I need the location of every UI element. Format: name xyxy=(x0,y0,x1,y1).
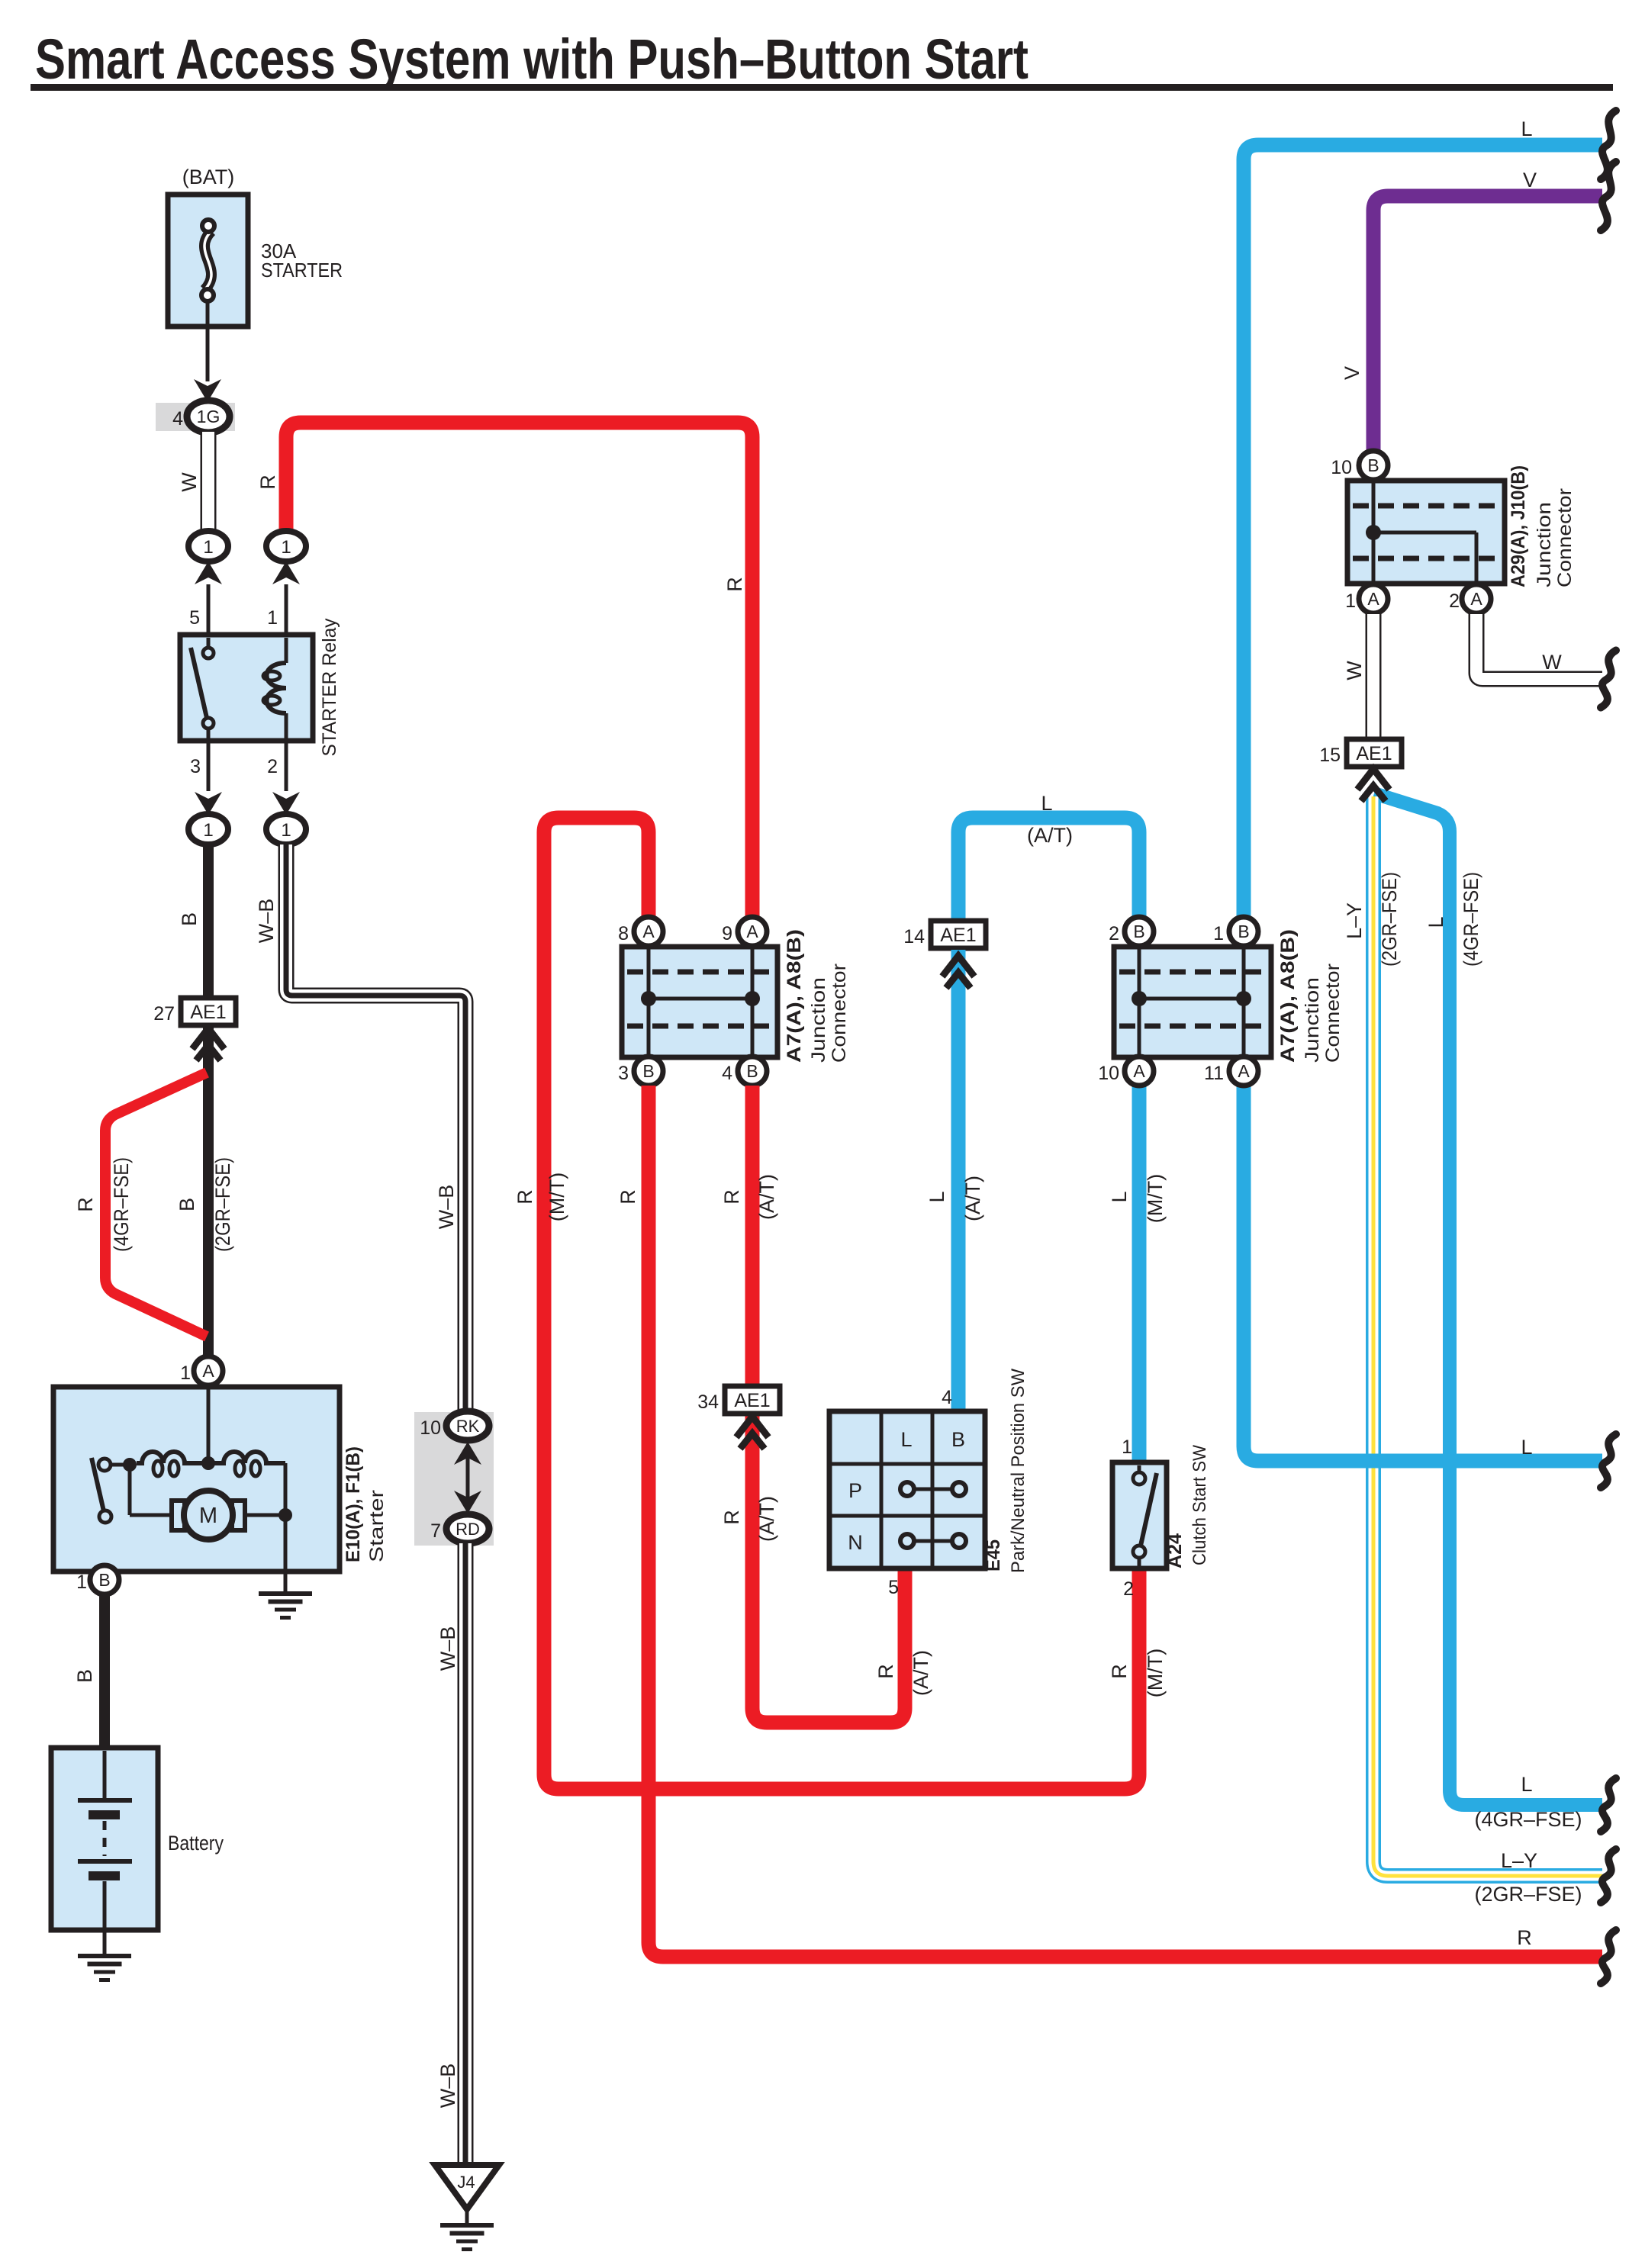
svg-text:AE1: AE1 xyxy=(734,1390,770,1411)
svg-text:R: R xyxy=(513,1189,536,1205)
wire relay pin2 down xyxy=(285,741,288,791)
svg-text:R: R xyxy=(74,1197,97,1212)
svg-text:1: 1 xyxy=(203,820,213,841)
svg-text:Clutch Start SW: Clutch Start SW xyxy=(1189,1445,1210,1565)
arrowhead up into oval (right) xyxy=(272,561,300,584)
svg-text:3: 3 xyxy=(190,756,201,777)
wire W-B from relay pin 2 xyxy=(286,844,465,1413)
svg-text:(M/T): (M/T) xyxy=(1144,1649,1167,1697)
svg-text:B: B xyxy=(1133,922,1144,941)
wire W-B to J4 xyxy=(458,1543,474,2163)
continuation squiggle L mid xyxy=(1601,1434,1616,1488)
svg-text:AE1: AE1 xyxy=(940,925,976,946)
svg-text:(2GR–FSE): (2GR–FSE) xyxy=(1378,872,1401,967)
battery ground wire xyxy=(103,1930,107,1956)
svg-text:4: 4 xyxy=(172,408,183,429)
pin 3B circle xyxy=(634,1057,663,1086)
chevron below AE1-34 xyxy=(736,1417,768,1437)
svg-text:(BAT): (BAT) xyxy=(182,166,235,188)
starter internals xyxy=(207,1385,211,1463)
svg-text:A29(A), J10(B): A29(A), J10(B) xyxy=(1508,465,1529,587)
svg-text:STARTER Relay: STARTER Relay xyxy=(319,618,340,756)
wire L (A/T) AE1-14 to pin 2B xyxy=(958,818,1139,921)
svg-text:E10(A), F1(B): E10(A), F1(B) xyxy=(343,1446,364,1562)
svg-text:8: 8 xyxy=(618,923,629,944)
svg-text:9: 9 xyxy=(722,923,732,944)
continuation squiggle L-Y xyxy=(1601,1849,1616,1903)
junction connector A7(A),A8(B) box (left) xyxy=(622,947,777,1057)
svg-text:Junction: Junction xyxy=(1534,502,1555,587)
svg-text:7: 7 xyxy=(430,1520,441,1542)
svg-text:(4GR–FSE): (4GR–FSE) xyxy=(1460,872,1482,967)
continuation squiggle W xyxy=(1601,651,1616,708)
svg-text:(4GR–FSE): (4GR–FSE) xyxy=(110,1157,133,1252)
svg-text:W–B: W–B xyxy=(436,2064,459,2109)
svg-text:(4GR–FSE): (4GR–FSE) xyxy=(1474,1808,1582,1831)
svg-text:34: 34 xyxy=(697,1391,719,1413)
ground (battery) xyxy=(78,1954,131,1958)
chevron below AE1-27 xyxy=(192,1028,224,1049)
svg-text:1: 1 xyxy=(1213,923,1224,944)
svg-text:27: 27 xyxy=(153,1003,175,1025)
svg-text:B: B xyxy=(1238,922,1249,941)
svg-text:1G: 1G xyxy=(197,407,221,426)
svg-text:R: R xyxy=(1108,1664,1131,1679)
arrowhead up to RK xyxy=(454,1442,481,1465)
connector 27 AE1 xyxy=(181,998,236,1025)
wire W pin 2A to right edge xyxy=(1476,614,1602,679)
svg-text:15: 15 xyxy=(1319,745,1341,766)
wire fuse to 1G xyxy=(206,302,210,381)
svg-text:(A/T): (A/T) xyxy=(755,1174,778,1220)
svg-text:Connector: Connector xyxy=(1554,488,1576,587)
svg-text:A: A xyxy=(1367,589,1379,609)
svg-text:(2GR–FSE): (2GR–FSE) xyxy=(211,1157,234,1252)
svg-text:W–B: W–B xyxy=(436,1626,459,1671)
relay STARTER Relay box xyxy=(180,635,313,741)
svg-text:L: L xyxy=(1041,792,1052,815)
wire B to battery xyxy=(99,1594,110,1749)
pin 10A circle xyxy=(1125,1057,1154,1086)
svg-text:(M/T): (M/T) xyxy=(1144,1174,1167,1223)
connector oval 1 below pin3 xyxy=(188,814,228,844)
svg-text:L–Y: L–Y xyxy=(1343,902,1366,939)
svg-text:A: A xyxy=(642,922,655,941)
wire R (4GR-FSE) bypass xyxy=(105,1073,207,1337)
fuse 30A STARTER box xyxy=(168,195,248,327)
svg-text:A: A xyxy=(746,922,758,941)
svg-text:B: B xyxy=(951,1428,965,1451)
svg-text:10: 10 xyxy=(1331,457,1352,478)
wire relay pin3 down xyxy=(207,741,211,791)
svg-text:L: L xyxy=(1108,1191,1131,1202)
connector 1G oval xyxy=(187,401,230,433)
continuation squiggle R xyxy=(1601,1930,1616,1983)
wire R (M/T) loop xyxy=(544,818,1139,1789)
connector 14 AE1 xyxy=(931,921,986,948)
svg-text:W–B: W–B xyxy=(255,899,278,944)
ground connector J4 xyxy=(435,2165,499,2209)
pin 2A circle xyxy=(1462,584,1491,613)
svg-text:10: 10 xyxy=(1098,1063,1119,1084)
svg-text:R: R xyxy=(1517,1926,1532,1949)
svg-text:B: B xyxy=(1367,455,1379,475)
svg-text:Connector: Connector xyxy=(1322,963,1344,1063)
connector oval 1 (right) xyxy=(266,531,306,561)
svg-text:W: W xyxy=(1343,661,1366,680)
svg-text:(M/T): (M/T) xyxy=(546,1173,568,1221)
starter pin B circle xyxy=(90,1565,119,1594)
relay switch contact xyxy=(207,638,211,646)
svg-text:2: 2 xyxy=(267,756,278,777)
svg-text:L–Y: L–Y xyxy=(1501,1849,1537,1872)
wire R from pin 3B to right edge xyxy=(649,1086,1602,1957)
svg-text:N: N xyxy=(848,1531,863,1554)
svg-text:W–B: W–B xyxy=(435,1185,458,1230)
wire to relay pin 1 xyxy=(285,584,288,638)
svg-text:B: B xyxy=(175,1198,198,1211)
E45 contact P row xyxy=(907,1488,959,1491)
ground (starter) xyxy=(259,1591,312,1596)
E45 contact N row xyxy=(907,1539,959,1543)
wire to relay pin 5 xyxy=(207,584,211,638)
svg-text:(A/T): (A/T) xyxy=(755,1496,778,1542)
svg-text:5: 5 xyxy=(888,1577,899,1598)
svg-text:R: R xyxy=(256,475,279,490)
junction internals (A29/J10) xyxy=(1372,481,1376,584)
svg-text:(2GR–FSE): (2GR–FSE) xyxy=(1474,1883,1582,1906)
svg-text:3: 3 xyxy=(618,1063,629,1084)
wire B (black) upper xyxy=(203,844,214,998)
svg-text:B: B xyxy=(98,1570,110,1590)
starter pin A circle xyxy=(194,1356,223,1385)
connector oval 1 below pin2 xyxy=(266,814,306,844)
svg-text:L: L xyxy=(1424,916,1447,928)
arrowhead into 1G xyxy=(194,379,221,402)
svg-text:5: 5 xyxy=(189,607,200,629)
svg-text:B: B xyxy=(746,1061,758,1081)
svg-text:R: R xyxy=(616,1189,639,1205)
svg-text:A7(A), A8(B): A7(A), A8(B) xyxy=(784,929,805,1063)
fuse element xyxy=(204,231,211,290)
svg-text:W: W xyxy=(1542,651,1562,674)
svg-text:L: L xyxy=(926,1191,948,1202)
wire W 1G to connector xyxy=(201,432,217,532)
svg-text:V: V xyxy=(1523,169,1537,191)
wire L (A/T) AE1-14 to E45 pin 4 xyxy=(951,950,966,1413)
svg-text:A24: A24 xyxy=(1164,1533,1186,1568)
svg-text:L: L xyxy=(900,1428,912,1451)
svg-text:1: 1 xyxy=(180,1362,191,1384)
starter E10(A),F1(B) box xyxy=(53,1387,340,1572)
wire RK to RD xyxy=(466,1457,470,1498)
connector RK/RD gray box xyxy=(414,1412,494,1546)
svg-text:L: L xyxy=(1521,1773,1532,1796)
svg-text:W: W xyxy=(178,472,201,492)
svg-text:B: B xyxy=(73,1669,96,1683)
svg-text:Battery: Battery xyxy=(168,1832,224,1855)
pin 2B circle xyxy=(1125,917,1154,946)
wire R (red) to oval xyxy=(286,423,752,916)
svg-text:1: 1 xyxy=(267,607,278,629)
connector 34 AE1 xyxy=(725,1386,780,1414)
pin 1A circle xyxy=(1359,584,1388,613)
svg-text:E45: E45 xyxy=(983,1539,1004,1572)
junction connector A29(A),J10(B) box xyxy=(1347,481,1505,584)
svg-text:1: 1 xyxy=(1345,590,1356,612)
svg-text:Connector: Connector xyxy=(829,963,850,1063)
battery box xyxy=(51,1748,158,1930)
junction connector A7(A),A8(B) box (right) xyxy=(1114,947,1271,1057)
battery symbol xyxy=(103,1751,107,1800)
starter motor M xyxy=(172,1501,185,1530)
arrowhead down into oval left xyxy=(195,792,222,815)
svg-text:1: 1 xyxy=(1122,1436,1132,1458)
svg-text:1: 1 xyxy=(281,537,291,558)
svg-text:10: 10 xyxy=(420,1417,441,1439)
pin 1B circle xyxy=(1229,917,1258,946)
svg-text:2: 2 xyxy=(1123,1578,1134,1600)
connector oval 1 (left) xyxy=(188,531,228,561)
continuation squiggle L top xyxy=(1601,111,1616,179)
pin 4B circle xyxy=(738,1057,767,1086)
pin 8A circle xyxy=(634,917,663,946)
arrowhead up into oval xyxy=(195,561,222,584)
svg-text:RD: RD xyxy=(456,1520,480,1539)
svg-text:R: R xyxy=(720,1510,743,1525)
svg-text:R: R xyxy=(874,1664,897,1679)
svg-text:4: 4 xyxy=(942,1387,952,1408)
wire R (A/T) pin 4B to E45 pin 5 xyxy=(752,1086,905,1723)
wire L (4GR-FSE) to right edge xyxy=(1374,793,1602,1805)
pin 11A circle xyxy=(1229,1057,1258,1086)
svg-text:(A/T): (A/T) xyxy=(1027,824,1073,847)
svg-text:B: B xyxy=(642,1061,654,1081)
svg-text:P: P xyxy=(848,1479,862,1502)
svg-text:V: V xyxy=(1341,366,1363,380)
switch E45 box xyxy=(829,1411,985,1568)
continuation squiggle V xyxy=(1601,162,1616,230)
pin 10B circle xyxy=(1359,451,1388,480)
svg-text:1: 1 xyxy=(76,1572,87,1593)
wire L (cyan) top feed to pin 1B xyxy=(1244,145,1602,917)
svg-text:A: A xyxy=(1238,1061,1250,1081)
title underline xyxy=(31,84,1613,91)
arrowhead down to RD xyxy=(454,1491,481,1514)
svg-text:RK: RK xyxy=(456,1417,480,1436)
wire B (black) lower xyxy=(203,1025,214,1359)
svg-text:1: 1 xyxy=(281,820,291,841)
junction internals (left) xyxy=(647,947,651,1057)
wire V (violet) feed to pin 10B xyxy=(1373,196,1602,451)
svg-text:STARTER: STARTER xyxy=(261,259,343,281)
chevron below AE1-15 xyxy=(1357,769,1389,790)
svg-text:J4: J4 xyxy=(457,2173,475,2192)
wire L pin 10A to clutch pin 1 xyxy=(1132,1086,1147,1464)
ground (J4) xyxy=(440,2223,494,2228)
continuation squiggle L 4GR xyxy=(1601,1778,1616,1832)
arrowhead down into oval right xyxy=(272,792,300,815)
svg-text:1: 1 xyxy=(203,537,213,558)
svg-text:AE1: AE1 xyxy=(1356,743,1392,764)
connector RD oval xyxy=(446,1514,489,1543)
junction internals (right) xyxy=(1138,947,1141,1057)
svg-text:R: R xyxy=(720,1189,743,1205)
pin 9A circle xyxy=(738,917,767,946)
svg-text:Junction: Junction xyxy=(808,977,829,1063)
svg-text:A7(A), A8(B): A7(A), A8(B) xyxy=(1277,929,1299,1063)
E45 grid xyxy=(880,1411,884,1568)
connector 1G gray band xyxy=(156,403,235,431)
connector RK oval xyxy=(446,1411,489,1440)
relay coil xyxy=(285,638,288,663)
wire L pin 11A down to right edge xyxy=(1244,1086,1602,1461)
svg-text:AE1: AE1 xyxy=(190,1002,226,1023)
svg-text:4: 4 xyxy=(722,1063,732,1084)
starter ground wire xyxy=(284,1515,288,1594)
svg-text:(A/T): (A/T) xyxy=(961,1176,984,1221)
svg-text:11: 11 xyxy=(1204,1063,1224,1084)
svg-text:L: L xyxy=(1521,1436,1532,1459)
clutch switch contact xyxy=(1138,1465,1141,1472)
wire L-Y (2GR-FSE) to right edge xyxy=(1373,796,1602,1876)
connector 15 AE1 xyxy=(1347,739,1402,767)
svg-text:2: 2 xyxy=(1109,923,1119,944)
svg-text:(A/T): (A/T) xyxy=(909,1650,932,1696)
svg-text:Junction: Junction xyxy=(1302,977,1323,1063)
svg-text:2: 2 xyxy=(1449,590,1460,612)
switch A24 clutch box xyxy=(1112,1462,1167,1568)
svg-text:M: M xyxy=(199,1504,217,1528)
svg-text:R: R xyxy=(723,577,746,592)
wire W pin 1A to AE1-15 xyxy=(1366,614,1382,739)
svg-text:A: A xyxy=(1133,1061,1145,1081)
svg-text:A: A xyxy=(1470,589,1482,609)
chevron below AE1-14 xyxy=(942,956,974,976)
svg-text:Starter: Starter xyxy=(366,1490,388,1562)
svg-text:14: 14 xyxy=(903,926,925,947)
svg-text:Smart Access System with Push–: Smart Access System with Push–Button Sta… xyxy=(35,27,1029,91)
svg-text:Park/Neutral Position SW: Park/Neutral Position SW xyxy=(1008,1369,1029,1573)
svg-text:A: A xyxy=(202,1361,214,1381)
svg-text:L: L xyxy=(1521,117,1532,140)
svg-text:B: B xyxy=(178,912,201,926)
